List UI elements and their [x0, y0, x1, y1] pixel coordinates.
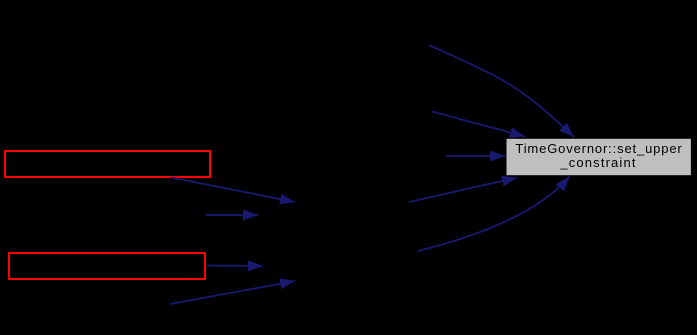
svg-text:_constraint: _constraint: [559, 155, 636, 170]
node U1: TimeGovernor::set_upper_constraint (current node, grey): [507, 139, 691, 175]
edge A4: hidden bottom-left node -> middle node: [170, 281, 295, 304]
node: red caller box 1 (top-left, truncated caller): [5, 151, 210, 177]
edge A6: lower middle node -> grey node (bottom edge): [418, 177, 570, 252]
edge A7: top hidden node -> grey node (long top curve): [429, 45, 574, 137]
edge A9: hidden node -> grey node (horizontal, left edge): [446, 155, 505, 157]
edge A5: middle node -> grey node (bottom-left corner): [410, 178, 518, 202]
edge A8: hidden node -> grey node (upper-left): [432, 112, 525, 137]
node: red caller box 2 (bottom-left, truncated caller): [9, 253, 205, 279]
edge A1: red box 1 -> middle node: [171, 178, 295, 203]
svg-text:TimeGovernor::set_upper: TimeGovernor::set_upper: [515, 141, 682, 156]
edge A2: hidden left node -> middle node (horizontal): [206, 214, 258, 216]
edge A3: red box 2 -> middle node (horizontal): [207, 265, 263, 268]
